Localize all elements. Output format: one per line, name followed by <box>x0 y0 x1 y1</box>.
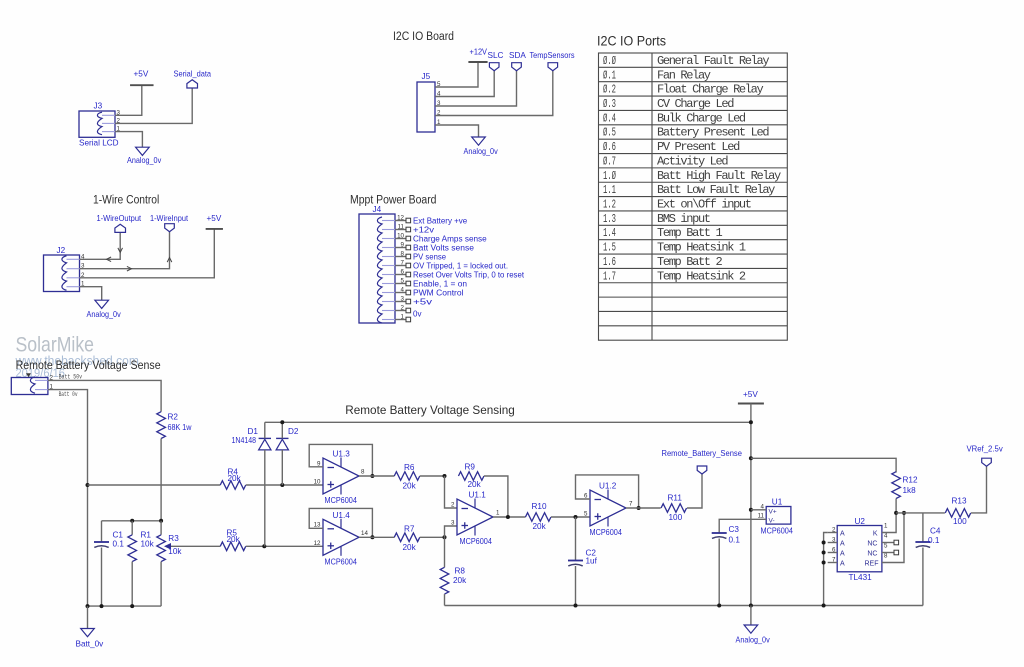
svg-text:BMS input: BMS input <box>657 212 710 226</box>
svg-text:100: 100 <box>669 513 683 522</box>
svg-text:+5V: +5V <box>207 214 222 223</box>
svg-text:3: 3 <box>451 520 455 527</box>
svg-text:PV Present Led: PV Present Led <box>657 140 740 154</box>
svg-text:CV Charge Led: CV Charge Led <box>657 97 734 111</box>
svg-text:Activity Led: Activity Led <box>657 154 728 168</box>
wire J5 pin1 to ground <box>435 125 479 137</box>
svg-text:Ø.1: Ø.1 <box>603 68 616 82</box>
wire U2 REF pin <box>882 513 904 563</box>
svg-text:R11: R11 <box>668 494 683 503</box>
svg-text:13: 13 <box>314 522 321 529</box>
svg-text:1uf: 1uf <box>586 557 598 566</box>
ic U2 box <box>837 526 882 572</box>
wire bottom-left rail <box>88 605 162 607</box>
svg-text:1: 1 <box>496 510 500 517</box>
svg-text:68K 1w: 68K 1w <box>168 423 192 432</box>
wire U1.2 out to R11 <box>626 507 661 509</box>
wire R11 to port <box>687 474 702 508</box>
wire U2 K pin <box>882 513 896 533</box>
svg-text:V-: V- <box>769 517 775 524</box>
wire J2 pin3 to 1-WireInput <box>80 232 170 269</box>
wire C1 top <box>101 521 103 542</box>
wire J3 pin3 to +5V <box>115 85 142 115</box>
wire Batt 50v to R2 <box>48 380 161 411</box>
svg-text:Analog_0v: Analog_0v <box>464 147 499 156</box>
port stub NC4 <box>894 540 899 545</box>
port TempSensors <box>548 63 558 71</box>
port 1-WireOutput <box>115 224 126 232</box>
wire node to U1.1 plus <box>445 526 458 537</box>
connector J5 box <box>417 82 435 132</box>
svg-text:Temp Batt 2: Temp Batt 2 <box>657 255 723 269</box>
svg-text:Remote Battery Voltage Sensing: Remote Battery Voltage Sensing <box>345 403 515 417</box>
ground Analog_0v <box>744 625 758 633</box>
capacitor C4 <box>915 541 930 543</box>
svg-text:NC: NC <box>867 540 877 547</box>
junction U1.1 out <box>506 515 510 519</box>
wire J2 pin1 to ground <box>80 287 102 301</box>
power +5V bar <box>738 403 764 405</box>
svg-text:8: 8 <box>884 553 888 560</box>
svg-text:R9: R9 <box>465 463 476 472</box>
junction <box>86 604 90 608</box>
junction U1.3 out <box>370 474 374 478</box>
svg-text:Remote_Battery_Sense: Remote_Battery_Sense <box>662 449 742 458</box>
svg-text:Temp Heatsink 1: Temp Heatsink 1 <box>657 241 746 255</box>
power +5V bar <box>206 228 223 230</box>
wire J5 pin2 to TempSensors <box>435 71 553 116</box>
junction C3 bottom <box>717 604 721 608</box>
svg-text:Float Charge Relay: Float Charge Relay <box>657 83 763 97</box>
svg-text:6: 6 <box>584 492 588 499</box>
port 1-WireInput <box>165 224 175 232</box>
marker battery connector <box>26 373 31 377</box>
wire U1.3 out to R6 <box>359 475 394 477</box>
svg-text:1.3: 1.3 <box>603 212 616 226</box>
svg-text:20k: 20k <box>227 535 241 544</box>
wire rail A left <box>88 484 221 486</box>
svg-text:14: 14 <box>361 530 368 537</box>
resistor R1 <box>128 535 137 562</box>
junction <box>822 551 826 555</box>
svg-text:R8: R8 <box>455 567 466 576</box>
svg-text:20k: 20k <box>533 522 547 531</box>
svg-text:R10: R10 <box>532 502 547 511</box>
ground Batt_0v <box>81 629 95 637</box>
wire +5V top rail <box>265 421 751 423</box>
svg-text:0.1: 0.1 <box>113 540 125 549</box>
svg-text:0.1: 0.1 <box>928 536 940 545</box>
svg-text:J3: J3 <box>94 102 103 111</box>
junction R6/R9 node <box>443 474 447 478</box>
svg-text:A: A <box>840 540 845 547</box>
connector J2 pin lines <box>67 258 80 260</box>
svg-text:20k: 20k <box>403 482 417 491</box>
connector J4 pin lines <box>382 220 395 222</box>
junction <box>159 519 163 523</box>
svg-text:V+: V+ <box>769 508 777 515</box>
resistor R2 <box>157 412 166 439</box>
svg-text:PV sense: PV sense <box>413 252 446 261</box>
svg-text:20k: 20k <box>403 543 417 552</box>
wire C4 top <box>922 513 924 542</box>
wire bottom-right rail <box>445 605 923 607</box>
wire U1.3 feedback <box>309 444 372 476</box>
wire J4 pin stubs <box>395 220 406 222</box>
svg-text:Serial LCD: Serial LCD <box>79 139 119 148</box>
svg-text:U1.2: U1.2 <box>599 482 617 491</box>
junction +5V right rail <box>749 456 753 460</box>
svg-text:Remote Battery Voltage Sense: Remote Battery Voltage Sense <box>16 360 161 372</box>
svg-text:Ext on\Off input: Ext on\Off input <box>657 198 751 212</box>
junction D2 top <box>280 420 284 424</box>
svg-text:MCP6004: MCP6004 <box>325 557 358 566</box>
junction K node <box>894 511 898 515</box>
svg-text:Bulk Charge Led: Bulk Charge Led <box>657 111 746 125</box>
wire R13 to VRef <box>971 466 987 513</box>
connector J2 box <box>44 255 80 292</box>
op-amp U1.2 <box>590 490 626 526</box>
port stubs J4 <box>406 218 411 223</box>
svg-text:R7: R7 <box>404 524 415 533</box>
svg-text:10k: 10k <box>168 547 182 556</box>
wire Batt 0v down <box>48 390 88 606</box>
wire node to R13 <box>896 512 945 514</box>
svg-text:100: 100 <box>953 517 967 526</box>
svg-text:Charge Amps sense: Charge Amps sense <box>413 234 487 243</box>
wire U1 V- pin <box>719 519 766 533</box>
wire U1.2 feedback <box>576 475 639 508</box>
svg-text:R2: R2 <box>168 413 179 422</box>
svg-text:7: 7 <box>629 501 633 508</box>
junction REF node <box>902 511 906 515</box>
op-amp U1.3 <box>323 458 359 494</box>
svg-text:+5V: +5V <box>743 390 758 399</box>
svg-text:Ø.4: Ø.4 <box>603 111 616 125</box>
svg-text:1: 1 <box>884 523 888 530</box>
svg-text:Ø.7: Ø.7 <box>603 154 616 168</box>
svg-text:Ø.5: Ø.5 <box>603 126 616 140</box>
svg-text:I2C IO Board: I2C IO Board <box>393 31 454 43</box>
pot R3 wiper arrow <box>164 543 171 550</box>
junction U1.2 out <box>637 506 641 510</box>
wire R1 bottom <box>131 562 133 607</box>
resistor R6 <box>394 472 420 481</box>
svg-text:R3: R3 <box>168 534 179 543</box>
wire rail B right <box>246 545 323 547</box>
svg-text:I2C IO Ports: I2C IO Ports <box>597 34 666 49</box>
op-amp U1.1 <box>457 499 493 535</box>
svg-text:Temp Batt 1: Temp Batt 1 <box>657 226 723 240</box>
table I2C IO Ports grid <box>599 53 788 340</box>
svg-text:Enable, 1 = on: Enable, 1 = on <box>413 279 467 288</box>
svg-text:7: 7 <box>832 556 836 563</box>
svg-text:U1.3: U1.3 <box>333 450 351 459</box>
svg-text:1.1: 1.1 <box>603 183 616 197</box>
svg-text:Batt 50v: Batt 50v <box>59 374 83 381</box>
svg-text:K: K <box>873 530 878 537</box>
wire R2 bottom <box>160 439 162 521</box>
diode D1 <box>259 439 271 450</box>
svg-text:A: A <box>840 530 845 537</box>
svg-text:Ø.3: Ø.3 <box>603 97 616 111</box>
junction D2 anode <box>280 483 284 487</box>
svg-text:Ext Battery +ve: Ext Battery +ve <box>413 216 467 225</box>
junction D1 anode <box>262 544 266 548</box>
wire U1.4 feedback <box>309 508 372 537</box>
junction <box>130 519 134 523</box>
svg-text:Batt_0v: Batt_0v <box>76 640 105 649</box>
svg-text:Temp Heatsink 2: Temp Heatsink 2 <box>657 269 746 283</box>
junction U1.4 out <box>370 535 374 539</box>
wire C1 bottom <box>101 548 103 607</box>
junction <box>130 604 134 608</box>
junction C2 node <box>574 515 578 519</box>
port stub NC5 <box>894 550 899 555</box>
junction <box>822 541 826 545</box>
potentiometer R3 <box>157 535 166 562</box>
connector J3 box <box>79 111 115 137</box>
resistor R12 <box>892 472 901 499</box>
svg-text:6: 6 <box>832 546 836 553</box>
arrow on pin3 wire <box>127 266 132 271</box>
ic U1 box <box>766 507 791 525</box>
arrow on output stem <box>118 248 123 253</box>
svg-text:MCP6004: MCP6004 <box>590 528 623 537</box>
wire R6 to node <box>420 475 445 477</box>
svg-text:10: 10 <box>314 479 321 486</box>
svg-text:1k8: 1k8 <box>903 486 917 495</box>
power +12V bar <box>468 61 487 63</box>
svg-text:+5v: +5v <box>413 297 432 306</box>
svg-text:D2: D2 <box>288 427 299 436</box>
wire J2 pin2 to +5V <box>80 229 215 278</box>
resistor R5 <box>220 542 246 551</box>
resistor R10 <box>525 513 551 522</box>
wire R1 top <box>131 521 133 535</box>
svg-text:J5: J5 <box>422 72 431 81</box>
wire J3 pin2 to Serial_data <box>115 88 192 123</box>
svg-text:Analog_0v: Analog_0v <box>736 636 771 645</box>
svg-text:General Fault Relay: General Fault Relay <box>657 54 769 68</box>
op-amp U1.4 <box>323 519 359 555</box>
wire R3 top <box>160 521 162 535</box>
svg-text:Batt Volts sense: Batt Volts sense <box>413 243 474 252</box>
svg-text:SLC: SLC <box>488 51 504 60</box>
power +5V bar <box>130 84 154 86</box>
svg-text:TL431: TL431 <box>849 573 873 582</box>
svg-text:4: 4 <box>884 533 888 540</box>
wire D2 anode <box>281 450 283 485</box>
svg-text:SDA: SDA <box>509 51 526 60</box>
wire C2 top <box>575 517 577 561</box>
junction rail A left <box>86 483 90 487</box>
capacitor C1 <box>94 541 109 543</box>
wire U1.4 out to R7 <box>359 536 394 538</box>
wire to Analog_0v ground <box>750 606 752 626</box>
svg-text:Analog_0v: Analog_0v <box>87 310 122 319</box>
junction <box>822 561 826 565</box>
svg-text:R13: R13 <box>952 497 967 506</box>
resistor R4 <box>220 481 246 490</box>
svg-text:1.6: 1.6 <box>603 255 616 269</box>
wire J5 pin5 to +12V <box>435 62 478 87</box>
wire R10 to U1.2 plus <box>551 516 590 518</box>
svg-text:20k: 20k <box>228 474 242 483</box>
junction +5V top rail <box>749 420 753 424</box>
ground Analog_0v <box>136 147 150 155</box>
wire D1 cathode <box>264 422 266 438</box>
svg-text:Fan Relay: Fan Relay <box>657 68 711 82</box>
wire R3 bottom <box>160 562 162 607</box>
svg-text:Battery Present Led: Battery Present Led <box>657 126 769 140</box>
svg-text:5: 5 <box>584 511 588 518</box>
svg-text:1.7: 1.7 <box>603 269 616 283</box>
svg-text:+12v: +12v <box>413 225 434 234</box>
wire D1 anode <box>264 450 266 546</box>
svg-text:R6: R6 <box>404 463 415 472</box>
svg-text:REF: REF <box>865 560 879 567</box>
svg-text:NC: NC <box>867 550 877 557</box>
svg-text:+5V: +5V <box>134 70 149 79</box>
svg-text:Reset Over Volts Trip, 0 to re: Reset Over Volts Trip, 0 to reset <box>413 270 525 279</box>
connector battery input box <box>11 378 48 395</box>
svg-text:3: 3 <box>832 536 836 543</box>
svg-text:MCP6004: MCP6004 <box>761 527 794 536</box>
svg-text:Mppt Power Board: Mppt Power Board <box>350 194 437 206</box>
junction <box>822 604 826 608</box>
arrow on input stem <box>167 258 172 263</box>
connector J2 contacts <box>62 256 67 291</box>
svg-text:U1.4: U1.4 <box>333 511 351 520</box>
svg-text:J4: J4 <box>373 205 382 214</box>
svg-text:Ø.Ø: Ø.Ø <box>603 54 616 68</box>
svg-text:Batt High Fault Relay: Batt High Fault Relay <box>657 169 781 183</box>
junction <box>100 604 104 608</box>
svg-text:8: 8 <box>361 469 365 476</box>
wire U2 anode bus <box>824 533 828 606</box>
wire C2 bottom <box>575 566 577 606</box>
svg-text:OV Tripped, 1 = locked out.: OV Tripped, 1 = locked out. <box>413 261 508 270</box>
svg-text:2: 2 <box>832 526 836 533</box>
svg-text:0v: 0v <box>413 310 421 319</box>
svg-text:Batt 0v: Batt 0v <box>59 391 78 398</box>
wire parallel top rail <box>102 520 162 522</box>
wire rail to R12 <box>751 458 896 472</box>
ground Analog_0v <box>95 300 109 308</box>
wire U2 NC pin5 <box>882 552 894 554</box>
svg-text:VRef_2.5v: VRef_2.5v <box>967 445 1004 454</box>
connector J4 box <box>359 214 395 323</box>
junction C2 bottom <box>574 604 578 608</box>
svg-text:5: 5 <box>884 543 888 550</box>
svg-text:2: 2 <box>451 501 455 508</box>
svg-text:C3: C3 <box>729 525 740 534</box>
resistor R9 <box>458 472 484 481</box>
svg-text:Ø.2: Ø.2 <box>603 83 616 97</box>
wire D2 cathode <box>281 422 283 438</box>
wire C4 bottom <box>922 548 924 606</box>
connector battery pin lines <box>35 379 48 381</box>
connector battery contacts <box>30 377 35 393</box>
svg-text:A: A <box>840 550 845 557</box>
resistor R13 <box>945 509 971 518</box>
svg-text:Analog_0v: Analog_0v <box>127 156 162 165</box>
wire to Batt_0v ground <box>87 606 89 628</box>
wire node to U1.1 minus <box>445 476 458 508</box>
svg-text:J2: J2 <box>57 246 66 255</box>
junction ground rail <box>749 604 753 608</box>
wire R8 bottom <box>444 594 446 605</box>
svg-text:C1: C1 <box>113 531 124 540</box>
resistor R7 <box>394 533 420 542</box>
junction R7 node <box>443 535 447 539</box>
resistor R11 <box>661 504 687 513</box>
wire node to R8 <box>444 537 446 567</box>
svg-text:MCP6004: MCP6004 <box>460 537 493 546</box>
svg-text:1.5: 1.5 <box>603 241 616 255</box>
svg-text:1.4: 1.4 <box>603 226 616 240</box>
svg-text:+12V: +12V <box>470 48 488 57</box>
ic U2 anode pins <box>828 532 838 534</box>
port SDA <box>512 63 522 71</box>
svg-text:0.1: 0.1 <box>729 536 741 545</box>
svg-text:PWM Control: PWM Control <box>413 288 464 297</box>
svg-text:Serial_data: Serial_data <box>174 70 212 79</box>
port Serial_data <box>187 80 198 88</box>
capacitor C3 <box>712 532 727 534</box>
connector J4 contacts <box>377 217 382 323</box>
svg-text:Ø.6: Ø.6 <box>603 140 616 154</box>
wire rail A right <box>246 484 323 486</box>
svg-text:11: 11 <box>758 513 765 520</box>
svg-text:MCP6004: MCP6004 <box>325 496 358 505</box>
svg-text:A: A <box>840 560 845 567</box>
wire J5 pin4 to SLC <box>435 71 494 97</box>
svg-text:U2: U2 <box>855 517 866 526</box>
svg-text:U1.1: U1.1 <box>469 491 487 500</box>
wire C3 bottom <box>718 539 720 606</box>
svg-text:1-Wire Control: 1-Wire Control <box>93 195 159 207</box>
svg-text:1N4148: 1N4148 <box>232 436 257 445</box>
svg-text:1-WireInput: 1-WireInput <box>150 214 189 223</box>
junction U1 V+ <box>749 508 753 512</box>
svg-text:D1: D1 <box>248 427 259 436</box>
wire U1.1 out <box>493 516 526 518</box>
svg-text:10k: 10k <box>141 540 155 549</box>
svg-text:C4: C4 <box>930 527 941 536</box>
svg-text:1-WireOutput: 1-WireOutput <box>97 214 142 223</box>
wire J2 pin4 to 1-WireOutput <box>80 232 121 259</box>
wire wiper to R5 <box>171 545 220 547</box>
port VRef_2.5v <box>982 458 992 466</box>
wire U2 NC pin4 <box>882 542 894 544</box>
svg-text:R1: R1 <box>141 531 152 540</box>
svg-text:20k: 20k <box>468 480 482 489</box>
svg-text:20k: 20k <box>453 576 467 585</box>
arrow on pin4 wire <box>107 257 112 262</box>
wire J5 pin3 to SDA <box>435 71 517 106</box>
connector J3 contacts <box>97 112 102 134</box>
svg-text:12: 12 <box>314 540 321 547</box>
port Remote_Battery_Sense <box>697 466 707 474</box>
wire U1 V+ pin <box>751 509 766 511</box>
svg-text:U1: U1 <box>772 498 783 507</box>
port SLC <box>489 63 499 71</box>
capacitor C2 <box>568 560 583 562</box>
svg-text:1.2: 1.2 <box>603 198 616 212</box>
wire J3 pin1 to ground <box>115 132 142 148</box>
